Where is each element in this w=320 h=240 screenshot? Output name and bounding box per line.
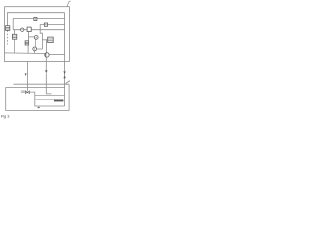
svg-text:Fig 3: Fig 3: [1, 113, 10, 118]
svg-text:30: 30: [21, 90, 25, 94]
